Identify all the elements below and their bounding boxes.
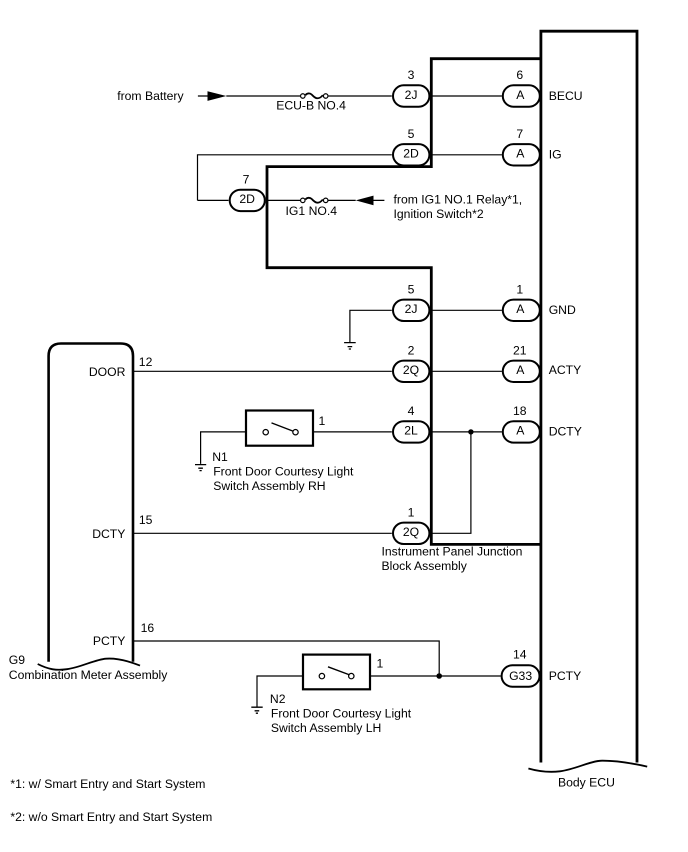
svg-text:GND: GND: [549, 303, 576, 317]
svg-text:Body ECU: Body ECU: [558, 775, 615, 789]
svg-text:7: 7: [516, 127, 523, 141]
svg-text:Switch Assembly LH: Switch Assembly LH: [271, 721, 381, 735]
svg-text:G9: G9: [9, 653, 25, 667]
svg-text:N2: N2: [270, 692, 286, 706]
svg-text:2J: 2J: [405, 88, 418, 102]
svg-text:Combination Meter Assembly: Combination Meter Assembly: [9, 668, 168, 682]
svg-text:*1: w/ Smart Entry and Start S: *1: w/ Smart Entry and Start System: [10, 777, 205, 791]
svg-text:2D: 2D: [403, 147, 419, 161]
svg-text:6: 6: [516, 68, 523, 82]
svg-text:7: 7: [243, 172, 250, 186]
svg-text:BECU: BECU: [549, 89, 583, 103]
svg-text:2D: 2D: [239, 192, 255, 206]
svg-text:5: 5: [408, 282, 415, 296]
svg-text:14: 14: [513, 647, 527, 661]
svg-text:2Q: 2Q: [403, 363, 419, 377]
svg-text:PCTY: PCTY: [549, 669, 582, 683]
svg-text:3: 3: [408, 68, 415, 82]
svg-text:PCTY: PCTY: [93, 634, 126, 648]
svg-text:A: A: [516, 363, 525, 377]
svg-text:IG: IG: [549, 148, 562, 162]
svg-text:2Q: 2Q: [403, 525, 419, 539]
svg-text:DCTY: DCTY: [549, 425, 582, 439]
svg-text:Front Door Courtesy Light: Front Door Courtesy Light: [271, 707, 412, 721]
svg-text:1: 1: [516, 282, 523, 296]
svg-text:*2: w/o Smart Entry and Start: *2: w/o Smart Entry and Start System: [10, 810, 212, 824]
svg-text:from Battery: from Battery: [117, 89, 184, 103]
svg-text:IG1 NO.4: IG1 NO.4: [286, 204, 338, 218]
svg-text:A: A: [516, 88, 525, 102]
svg-text:ECU-B NO.4: ECU-B NO.4: [276, 99, 346, 113]
svg-text:Switch Assembly RH: Switch Assembly RH: [213, 479, 325, 493]
svg-text:A: A: [516, 424, 525, 438]
svg-text:2L: 2L: [404, 424, 418, 438]
svg-text:2J: 2J: [405, 302, 418, 316]
svg-text:1: 1: [408, 505, 415, 519]
svg-text:DOOR: DOOR: [89, 365, 126, 379]
svg-text:DCTY: DCTY: [92, 527, 125, 541]
svg-text:12: 12: [139, 355, 153, 369]
svg-text:Instrument Panel Junction: Instrument Panel Junction: [382, 545, 523, 559]
svg-text:4: 4: [408, 404, 415, 418]
svg-text:A: A: [516, 147, 525, 161]
svg-text:21: 21: [513, 343, 527, 357]
svg-text:from IG1 NO.1 Relay*1,: from IG1 NO.1 Relay*1,: [394, 193, 523, 207]
svg-text:G33: G33: [509, 669, 532, 683]
svg-text:Front Door Courtesy Light: Front Door Courtesy Light: [213, 464, 354, 478]
svg-text:15: 15: [139, 513, 153, 527]
svg-text:A: A: [516, 302, 525, 316]
svg-text:2: 2: [408, 343, 415, 357]
svg-text:Block Assembly: Block Assembly: [382, 559, 468, 573]
svg-text:ACTY: ACTY: [549, 363, 582, 377]
svg-text:1: 1: [319, 414, 326, 428]
svg-text:N1: N1: [212, 450, 228, 464]
svg-text:5: 5: [408, 127, 415, 141]
svg-text:Ignition Switch*2: Ignition Switch*2: [394, 207, 484, 221]
svg-text:16: 16: [141, 621, 155, 635]
svg-text:1: 1: [377, 657, 384, 671]
svg-text:18: 18: [513, 404, 527, 418]
